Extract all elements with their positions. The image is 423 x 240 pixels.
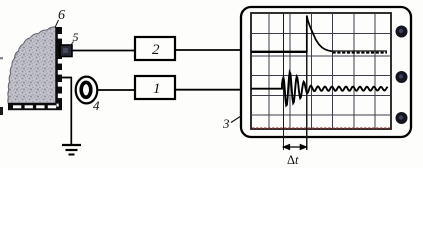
transducer 4 (emitter, double ring)	[76, 77, 98, 104]
screen grid vertical lines	[269, 13, 375, 129]
trace 1 dotted tail	[332, 50, 388, 52]
trace 2 damped oscillation	[251, 72, 388, 105]
ground symbol	[62, 145, 81, 155]
oscilloscope 3 body	[241, 7, 411, 137]
delta-t arrow	[283, 145, 306, 150]
specimen wall (vertical dashed black face)	[56, 27, 63, 110]
red dotted artifact line at screen bottom	[252, 127, 390, 129]
svg-text:Δt: Δt	[287, 153, 299, 167]
svg-text:2: 2	[152, 42, 160, 58]
box 1 (amplifier)	[135, 76, 175, 99]
label 3	[222, 116, 241, 131]
knob 1	[396, 26, 408, 38]
wire wall to transducer junction	[62, 77, 72, 79]
ground wire (vertical)	[70, 77, 72, 145]
label 5	[71, 30, 79, 46]
trace 1 spike and exponential decay	[307, 16, 333, 53]
label 6	[55, 8, 65, 28]
wire sensor5 to box2	[72, 50, 135, 52]
specimen bottom bar (horizontal dashed black base)	[8, 103, 62, 110]
svg-text:4: 4	[93, 98, 100, 113]
box 2 (amplifier)	[135, 37, 175, 60]
oscilloscope screen	[251, 13, 391, 129]
wire box1 to oscilloscope	[175, 89, 242, 91]
scan artifact left edge	[0, 107, 3, 115]
trace 1 baseline	[251, 51, 307, 53]
knob 2	[396, 71, 408, 83]
svg-text:6: 6	[58, 8, 65, 23]
knob 3	[396, 112, 408, 124]
wire box2 to oscilloscope	[175, 49, 242, 51]
cursor line right	[306, 16, 308, 151]
cursor line left	[283, 13, 285, 150]
svg-text:1: 1	[153, 81, 161, 97]
sensor 5 (receiver on wall)	[60, 45, 72, 57]
wire transducer4 to box1	[97, 89, 135, 91]
svg-text:3: 3	[222, 116, 230, 131]
screen grid horizontal lines	[251, 34, 391, 116]
specimen body (stippled concrete mass)	[8, 27, 56, 103]
